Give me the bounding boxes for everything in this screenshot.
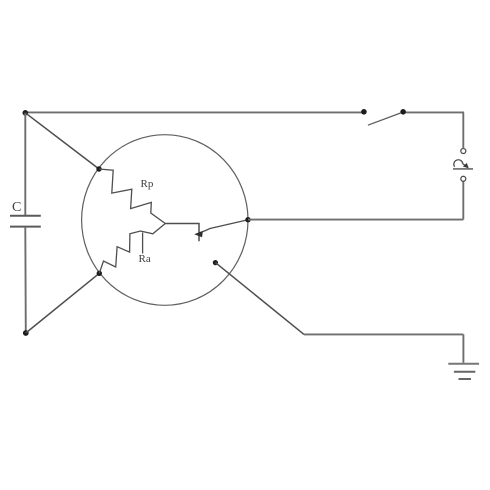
- connector upper terminal: [461, 149, 466, 154]
- wire diagonal top-left to circle: [25, 113, 99, 169]
- svg-text:Rp: Rp: [141, 178, 154, 190]
- wire diagonal bottom-left to circle: [26, 273, 100, 333]
- svg-text:C: C: [12, 200, 21, 215]
- node on circle lower-left: [97, 271, 102, 276]
- node top-left junction: [23, 110, 29, 116]
- node on circle upper-left: [96, 166, 101, 171]
- switch S: [361, 109, 406, 125]
- wire right vertical above connector: [462, 112, 464, 148]
- connector lower terminal: [461, 176, 466, 181]
- wire right vertical below connector: [462, 181, 464, 219]
- wiper tap bar: [165, 224, 199, 242]
- wire left vertical upper: [24, 113, 26, 215]
- wire ground vertical: [462, 334, 464, 362]
- node on circle right: [245, 217, 250, 222]
- wire middle horizontal: [248, 219, 463, 221]
- wire top horizontal left segment: [25, 111, 364, 113]
- wire diagonal from inner node to bottom rail: [215, 263, 304, 335]
- capacitor C: [10, 200, 41, 227]
- wiper arm with arrowhead: [194, 220, 248, 237]
- wire bottom horizontal: [304, 333, 463, 335]
- node bottom-left junction: [23, 330, 29, 336]
- resistor Rp: [99, 169, 165, 224]
- resistor Ra: [99, 224, 165, 274]
- wire top horizontal right segment: [403, 111, 464, 113]
- potentiometer body circle: [82, 135, 248, 306]
- svg-text:Ra: Ra: [139, 253, 151, 265]
- ground symbol: [448, 364, 479, 379]
- node inside circle (brush terminal): [213, 260, 218, 265]
- connector symbol (arc arrow over contact line): [453, 160, 473, 169]
- wire left vertical lower: [24, 227, 27, 333]
